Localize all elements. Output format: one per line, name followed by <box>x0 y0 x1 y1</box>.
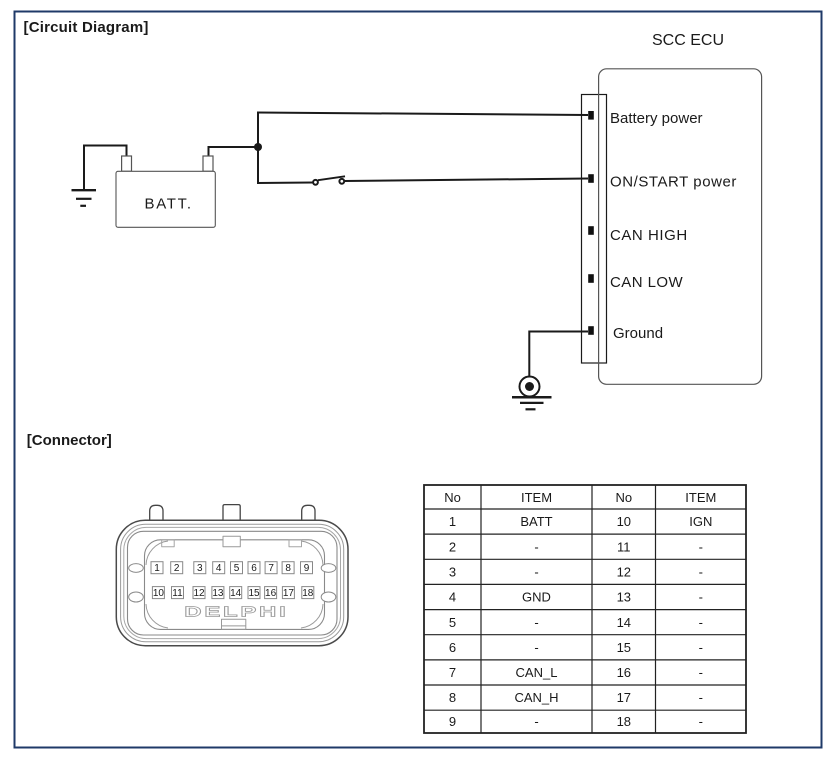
svg-text:3: 3 <box>449 565 456 580</box>
svg-text:6: 6 <box>449 640 456 655</box>
svg-text:10: 10 <box>153 588 165 599</box>
junction dot <box>254 143 262 151</box>
chassis ground G2 circle <box>520 377 540 397</box>
cavity numbers row 1 <box>154 563 310 574</box>
connector side latch right upper <box>321 564 336 573</box>
battery terminal left <box>122 156 132 171</box>
connector face corner arc top-right <box>301 541 323 565</box>
connector shell line 3 <box>124 527 341 638</box>
svg-text:10: 10 <box>617 514 631 529</box>
table row line 6 <box>424 634 746 636</box>
svg-text:2: 2 <box>174 563 180 574</box>
svg-text:No: No <box>444 490 461 505</box>
cavity 8 <box>282 562 294 574</box>
svg-text:ON/START power: ON/START power <box>610 173 737 190</box>
table outer border <box>424 485 746 733</box>
wire Ground pin to chassis ground <box>529 332 588 377</box>
svg-text:CAN_H: CAN_H <box>514 690 558 705</box>
table row line 2 <box>424 533 746 535</box>
connector strip <box>582 95 607 364</box>
connector tab right <box>302 505 315 521</box>
switch S1 contact left <box>313 180 318 185</box>
cavity 7 <box>265 562 277 574</box>
cavity 13 <box>212 587 224 599</box>
table row line 9 <box>424 709 746 711</box>
table row line 7 <box>424 659 746 661</box>
table column line 3 <box>655 485 657 733</box>
svg-text:9: 9 <box>449 714 456 729</box>
wire battery to chassis ground <box>84 146 127 190</box>
svg-text:ITEM: ITEM <box>685 490 716 505</box>
svg-text:5: 5 <box>449 615 456 630</box>
svg-text:18: 18 <box>302 588 314 599</box>
svg-text:-: - <box>534 565 538 580</box>
pin Battery power <box>588 111 594 120</box>
svg-text:-: - <box>534 714 538 729</box>
svg-text:-: - <box>699 590 703 605</box>
svg-text:4: 4 <box>216 563 222 574</box>
cavity 11 <box>172 587 184 599</box>
connector side latch left upper <box>129 564 144 573</box>
svg-text:-: - <box>699 539 703 554</box>
connector top tick right <box>289 540 302 547</box>
table row line 4 <box>424 583 746 585</box>
svg-text:12: 12 <box>617 565 631 580</box>
svg-text:2: 2 <box>449 539 456 554</box>
svg-text:DELPHI: DELPHI <box>184 604 286 620</box>
svg-text:8: 8 <box>285 563 291 574</box>
svg-text:8: 8 <box>449 690 456 705</box>
svg-text:18: 18 <box>617 714 631 729</box>
svg-text:CAN_L: CAN_L <box>516 665 558 680</box>
cavity 14 <box>230 587 242 599</box>
svg-text:6: 6 <box>251 563 257 574</box>
svg-text:No: No <box>615 490 632 505</box>
cavity 3 <box>194 562 206 574</box>
wire junction to switch <box>257 182 313 185</box>
battery BATT. box <box>116 171 215 227</box>
svg-text:[Circuit Diagram]: [Circuit Diagram] <box>24 19 149 36</box>
wire top to Battery power pin <box>257 113 588 116</box>
svg-text:Ground: Ground <box>613 325 663 342</box>
cavity 9 <box>301 562 313 574</box>
connector side latch right lower <box>321 592 336 602</box>
svg-text:-: - <box>534 539 538 554</box>
battery terminal right <box>203 156 213 171</box>
svg-text:CAN LOW: CAN LOW <box>610 274 684 291</box>
cavity 2 <box>171 562 183 574</box>
svg-text:Battery power: Battery power <box>610 110 703 127</box>
svg-text:GND: GND <box>522 590 551 605</box>
svg-text:-: - <box>699 565 703 580</box>
pin ON/START power <box>588 174 594 183</box>
cavity 16 <box>265 587 277 599</box>
connector tab center <box>223 505 240 521</box>
cavity 4 <box>213 562 225 574</box>
svg-text:1: 1 <box>449 514 456 529</box>
svg-text:-: - <box>699 615 703 630</box>
table row line 3 <box>424 558 746 560</box>
svg-text:13: 13 <box>212 588 224 599</box>
svg-text:IGN: IGN <box>689 514 712 529</box>
ground G1 bar3 <box>80 205 86 207</box>
svg-text:-: - <box>699 690 703 705</box>
svg-text:9: 9 <box>304 563 310 574</box>
cavity 12 <box>193 587 205 599</box>
svg-text:-: - <box>534 615 538 630</box>
table row line 1 <box>424 508 746 510</box>
svg-text:-: - <box>699 714 703 729</box>
switch S1 contact right <box>339 179 344 184</box>
svg-text:-: - <box>699 640 703 655</box>
connector top notch <box>223 536 240 547</box>
connector cavities row 1 <box>151 562 314 599</box>
svg-text:12: 12 <box>193 588 205 599</box>
wire battery to junction <box>209 147 258 157</box>
ground G1 bar1 <box>72 189 97 191</box>
svg-text:-: - <box>534 640 538 655</box>
chassis ground G2 bar2 <box>520 402 544 404</box>
table column line 2 <box>591 485 593 733</box>
svg-text:13: 13 <box>617 590 631 605</box>
table text <box>444 490 716 729</box>
svg-text:17: 17 <box>617 690 631 705</box>
connector face corner arc bottom-left <box>146 604 168 628</box>
switch S1 lever <box>318 176 345 180</box>
SCC ECU box U1 <box>599 69 762 385</box>
pin table <box>424 485 746 733</box>
cavity 15 <box>248 587 260 599</box>
svg-text:14: 14 <box>617 615 631 630</box>
svg-text:[Connector]: [Connector] <box>27 432 112 449</box>
svg-text:16: 16 <box>617 665 631 680</box>
svg-text:11: 11 <box>617 539 631 554</box>
cavity 10 <box>152 587 164 599</box>
cavity 1 <box>151 562 163 574</box>
connector tab left <box>150 505 163 521</box>
svg-text:16: 16 <box>265 588 277 599</box>
chassis ground G2 bar1 <box>512 396 552 399</box>
table row line 5 <box>424 609 746 611</box>
svg-text:7: 7 <box>449 665 456 680</box>
connector shell line 2 <box>121 524 344 641</box>
chassis ground G2 bar3 <box>526 408 536 410</box>
svg-text:15: 15 <box>248 588 260 599</box>
ground G1 bar2 <box>76 198 92 200</box>
svg-text:ITEM: ITEM <box>521 490 552 505</box>
svg-text:17: 17 <box>283 588 295 599</box>
table row line 8 <box>424 684 746 686</box>
pin Ground <box>588 326 594 335</box>
svg-text:5: 5 <box>234 563 240 574</box>
chassis ground G2 dot <box>525 382 534 391</box>
cavity numbers row 2 <box>153 588 314 599</box>
pin CAN LOW <box>588 274 594 283</box>
connector collar <box>128 531 338 635</box>
cavity 5 <box>231 562 243 574</box>
connector drawing <box>116 505 348 646</box>
connector top tick left <box>162 540 175 547</box>
svg-text:CAN HIGH: CAN HIGH <box>610 227 688 244</box>
wire junction vertical <box>257 112 259 185</box>
table column line 1 <box>480 485 482 733</box>
svg-text:15: 15 <box>617 640 631 655</box>
cavity 17 <box>282 587 294 599</box>
svg-text:1: 1 <box>154 563 160 574</box>
svg-text:SCC ECU: SCC ECU <box>652 32 724 49</box>
connector outer shell <box>116 520 348 645</box>
svg-text:4: 4 <box>449 590 456 605</box>
pin CAN HIGH <box>588 226 594 235</box>
svg-text:BATT.: BATT. <box>145 195 193 212</box>
connector face corner arc top-left <box>146 541 168 565</box>
cavity 6 <box>248 562 260 574</box>
svg-text:BATT: BATT <box>520 514 552 529</box>
connector side latch left lower <box>129 592 144 602</box>
svg-text:-: - <box>699 665 703 680</box>
connector inner face <box>145 540 325 630</box>
svg-text:14: 14 <box>230 588 242 599</box>
connector bottom notch <box>222 619 246 629</box>
wire switch to ON/START pin <box>344 179 588 182</box>
svg-text:7: 7 <box>268 563 274 574</box>
svg-text:3: 3 <box>197 563 203 574</box>
cavity 18 <box>302 587 314 599</box>
connector face corner arc bottom-right <box>301 604 323 628</box>
connector bottom notch inner <box>222 625 246 627</box>
svg-text:11: 11 <box>172 588 183 599</box>
